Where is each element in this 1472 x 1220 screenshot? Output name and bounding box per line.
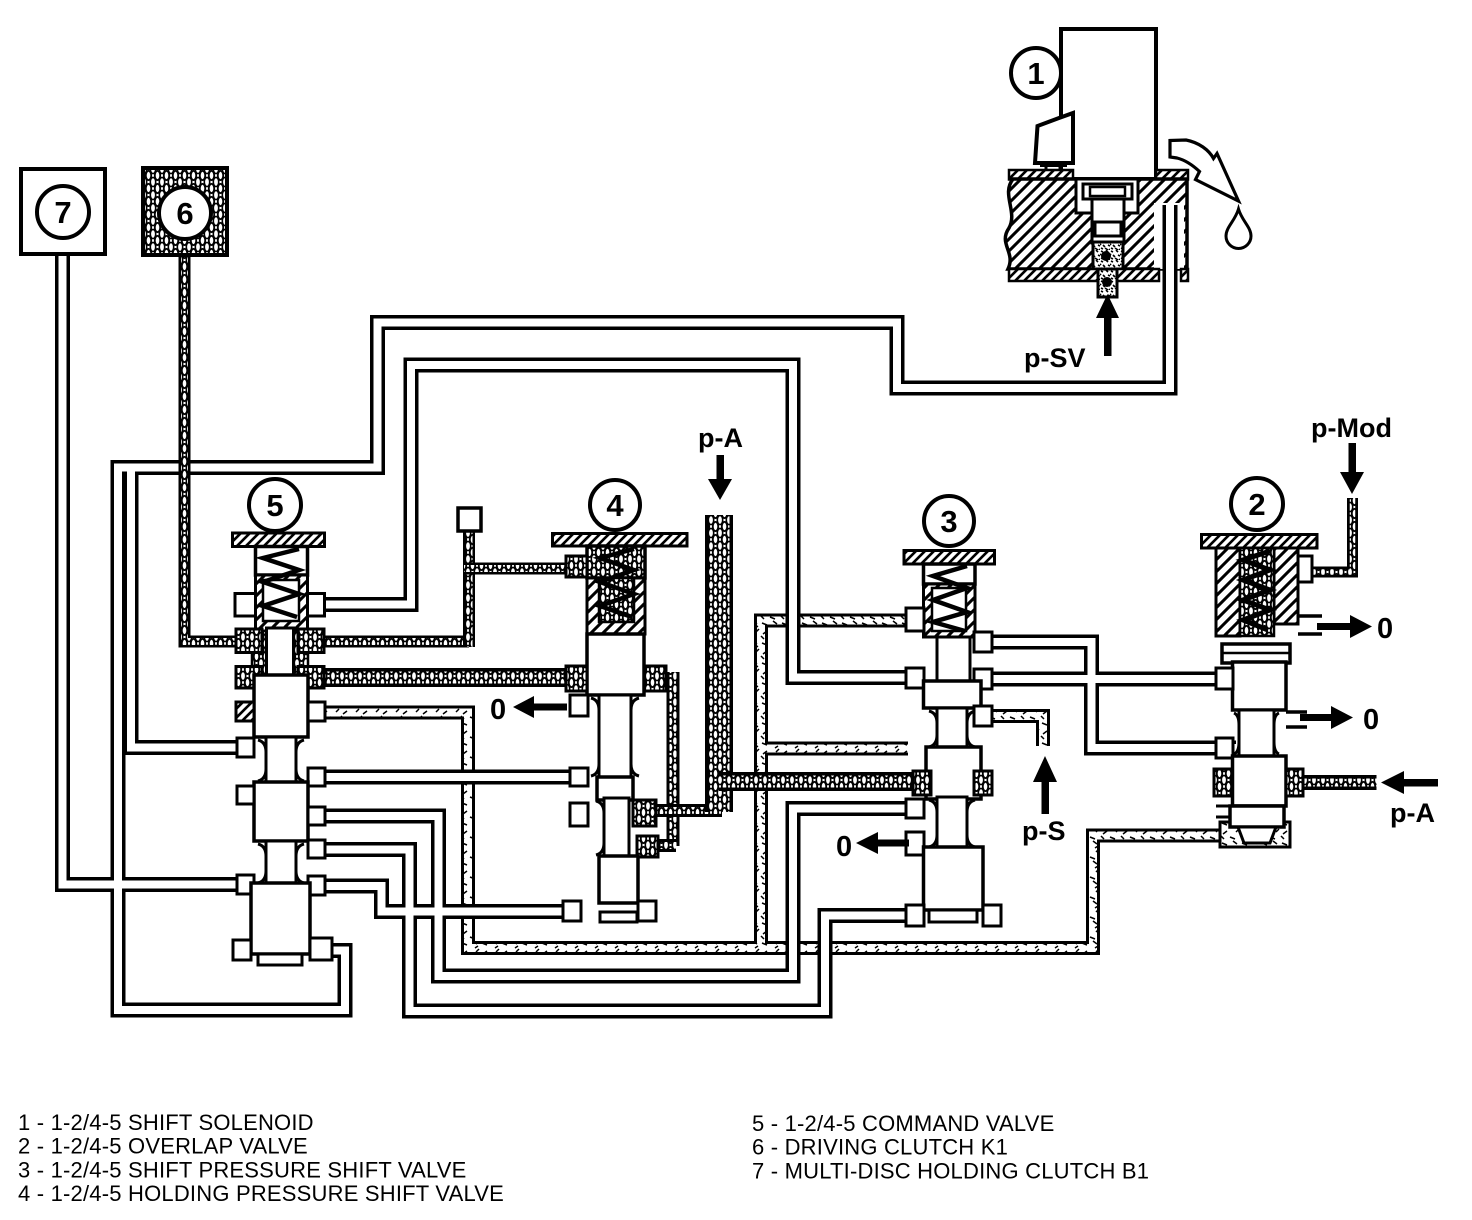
valve2 right vent lines row1: [1298, 616, 1322, 634]
wire valve5 bottom-right to valve4 bottom tab: [320, 886, 578, 912]
svg-text:p-SV: p-SV: [1024, 343, 1086, 373]
svg-text:4: 4: [606, 488, 624, 523]
chain stub lower: [640, 839, 676, 852]
valve2 spring: [1243, 551, 1270, 630]
valve4 left stub (pipe from valve5): [570, 768, 588, 786]
valve2 left stub (pipe A): [1216, 738, 1233, 758]
svg-text:4 - 1-2/4-5 HOLDING PRESSURE S: 4 - 1-2/4-5 HOLDING PRESSURE SHIFT VALVE: [18, 1181, 504, 1206]
valve2 neck flares: [1234, 713, 1279, 754]
valve5 right stub (to valve4 bottom): [308, 876, 325, 895]
valve5 neck2: [266, 841, 296, 886]
valve5 land3: [251, 883, 310, 954]
valve4 bottom cap: [600, 912, 637, 922]
valve5 bottom tabs: [233, 940, 251, 960]
arrow p-S up: [1042, 778, 1050, 814]
circle 5: [249, 479, 301, 531]
valve3 spring: [933, 566, 967, 631]
valve2 collar: [1222, 644, 1290, 663]
valve3 landB: [926, 747, 981, 799]
valve2 bottom speckled block: [1220, 822, 1290, 847]
valve3 left stub (P2 pipe): [906, 668, 924, 688]
svg-text:p-A: p-A: [1390, 798, 1435, 828]
plug stub square above valve4 feed: [458, 508, 481, 531]
housing top plate left: [1009, 170, 1073, 180]
box item 7 (multi-disc holding clutch B1): [21, 169, 105, 254]
valve5 left stub: [237, 786, 254, 804]
valve5 hatched block: [256, 575, 308, 631]
valve4 land1: [587, 634, 644, 695]
housing block: [1005, 179, 1187, 269]
valve2 chain stubs: [1214, 769, 1232, 796]
valve5 land1: [254, 675, 308, 737]
valve4 neck2: [604, 798, 629, 858]
svg-text:p-A: p-A: [698, 423, 743, 453]
valve4 left chain port (from plug stub): [566, 556, 587, 577]
valve3 hatched block: [924, 584, 976, 637]
valve2 p-Mod connector: [1298, 556, 1312, 582]
svg-text:2: 2: [1248, 487, 1265, 522]
p-A wide supply column: [705, 515, 733, 812]
valve2 spring housing: [1216, 548, 1240, 636]
valve3 right stub 2 (pipe to valve2): [974, 669, 992, 689]
valve4 cap bar: [553, 534, 688, 547]
valve4 chain stubs row: [566, 666, 587, 691]
wire valve5 right to valve4 left mid port: [320, 770, 573, 785]
svg-text:p-S: p-S: [1022, 816, 1066, 846]
wire P2: valve5 spring port up-over to valve 3 left port: [320, 365, 910, 678]
pipe from clutch box 6 down to valve 5 left port: [185, 253, 241, 642]
spool neck flares: [258, 698, 1279, 883]
valve5 chain port blocks row1: [236, 629, 262, 653]
vent speckled branch to valve 3 mid-left port: [761, 742, 908, 756]
valve4 hatched block: [587, 578, 645, 634]
X-chain pipe valve5 right row2 to valve4 left port: [305, 668, 573, 687]
housing right cavity: [1154, 203, 1184, 269]
valve5 body chain columns: [252, 631, 268, 681]
arrow p-A left: [1402, 779, 1438, 787]
valve3 right stub (p-S): [974, 706, 992, 726]
valve2 land1: [1233, 662, 1287, 710]
valve3 neck A-B: [937, 708, 967, 750]
valve5 land2: [254, 782, 308, 841]
valve4 spring: [600, 549, 634, 617]
valve2 left bottom stub lines: [1216, 806, 1230, 817]
plunger tail: [1098, 269, 1117, 297]
stub to valve 4 left top port: [464, 563, 573, 575]
valve5 neck1: [266, 737, 296, 784]
box item 6 (driving clutch K1): [143, 168, 227, 255]
valve5 right port stub (to valve4): [308, 768, 325, 786]
arrow p-SV up: [1104, 314, 1112, 356]
valve5 neck1 flares: [258, 740, 304, 781]
valve2 cap bar: [1202, 535, 1318, 549]
svg-text:0: 0: [490, 694, 506, 726]
valve5 neck2 flares: [258, 844, 304, 883]
svg-text:3 - 1-2/4-5 SHIFT PRESSURE SHI: 3 - 1-2/4-5 SHIFT PRESSURE SHIFT VALVE: [18, 1157, 467, 1182]
p-A chain pipe into valve 2 right: [1296, 775, 1378, 790]
valve3 chain stubs: [913, 771, 931, 795]
wire box7 to valve 5 lower-left port: [63, 252, 246, 885]
housing center cavity: [1076, 179, 1138, 213]
valve3 vent port: [906, 832, 924, 855]
valve3 right stub top (pipe to valve2): [974, 632, 992, 652]
vent 0 at valve2 row2: [1300, 714, 1332, 721]
valve stem channel: [1092, 199, 1124, 243]
valve5 spring: [263, 549, 299, 617]
svg-text:5 - 1-2/4-5 COMMAND VALVE: 5 - 1-2/4-5 COMMAND VALVE: [752, 1111, 1054, 1136]
housing top plate right: [1156, 170, 1188, 180]
valve3 spring chamber: [924, 564, 976, 584]
valve3 cap bar: [904, 551, 995, 565]
valve5 left port stub (p-SV branch): [237, 738, 254, 757]
valve4 bottom tabs: [563, 901, 581, 921]
svg-text:1 - 1-2/4-5 SHIFT SOLENOID: 1 - 1-2/4-5 SHIFT SOLENOID: [18, 1110, 314, 1135]
valve4 land3: [599, 856, 638, 903]
valve2 left stub: [1216, 668, 1233, 689]
valve3 left port at spring bottom (speckle): [906, 608, 924, 631]
valve3 bottom cap: [929, 910, 977, 922]
chain-textured pipes: [185, 253, 1379, 846]
svg-text:0: 0: [1377, 613, 1393, 645]
svg-text:6 - DRIVING CLUTCH K1: 6 - DRIVING CLUTCH K1: [752, 1135, 1008, 1160]
valve3 bottom tabs: [906, 905, 924, 926]
valve5 chain port blocks row2: [236, 667, 262, 689]
vent speckled branch riser to valve 3 upper ports: [761, 621, 922, 949]
valve4 left open stub: [570, 803, 588, 826]
connector terminal: [1040, 166, 1067, 173]
plug stub riser: [463, 525, 475, 647]
white double-line pipes (black pass): [63, 252, 1237, 1011]
plunger stippled: [1093, 242, 1123, 269]
wire valve3 right-top down-over to valve2 left mid: [988, 642, 1236, 748]
X-chain pipe p-A column to valve 3 left chain port: [719, 772, 916, 791]
wire p-SV main run: solenoid to valve 5 bottom: [118, 278, 1170, 1010]
svg-text:0: 0: [1363, 704, 1379, 736]
svg-text:7: 7: [54, 195, 71, 230]
stem ring: [1095, 222, 1121, 236]
circle 4: [590, 480, 640, 530]
svg-text:6: 6: [176, 196, 193, 231]
solenoid connector: [1035, 113, 1073, 163]
vent 0 at valve2 row1: [1317, 623, 1351, 630]
valve4 spring chamber chain-filled: [587, 546, 645, 578]
wire valve5 right (row6) via bottom run H2 to valve3 bottom tab: [320, 850, 910, 1012]
chain riser on valve4 right side: [667, 672, 680, 846]
svg-text:5: 5: [266, 488, 283, 523]
valve5 bottom cap: [258, 954, 302, 965]
valve2 bottom land: [1230, 806, 1284, 827]
valve5 right stub (row6): [308, 840, 325, 858]
housing bottom strip: [1009, 269, 1159, 281]
valve5 right stub (row5): [308, 807, 325, 825]
svg-text:3: 3: [940, 504, 957, 539]
valve5 vent port hatched: [236, 702, 254, 721]
valve5 cap bar: [233, 533, 325, 547]
wire valve5 right (row5) via bottom run H1 to valve3 left port: [320, 809, 910, 977]
valve5 left stub (box7 pipe): [237, 875, 254, 894]
valve2 neck: [1239, 710, 1274, 757]
valve4 land2: [597, 777, 633, 800]
p-Mod inlet pipe to valve 2: [1300, 498, 1353, 572]
vent droplet: [1226, 209, 1251, 248]
circle 1: [1011, 48, 1061, 98]
wavy pipe valve5 right row1 to plug stub riser: [305, 636, 469, 648]
vent gallery speckled pipe: valve5 vent to valve2 bottom: [318, 621, 1222, 949]
pipe from solenoid cavity down: [1163, 205, 1178, 278]
valve3 neck B-C: [937, 797, 967, 850]
valve4 neck: [599, 695, 631, 779]
valve5 spring chamber: [256, 547, 308, 576]
svg-text:1: 1: [1027, 56, 1044, 91]
valve3 neckBC flares: [929, 800, 975, 847]
valve3 landC: [924, 847, 984, 910]
arrow p-A down: [717, 455, 725, 483]
circle 2: [1231, 478, 1283, 530]
valve4 right chain stub2: [637, 836, 658, 857]
valve3 neck below spring: [937, 637, 970, 684]
valve5 vent port right (to gallery): [308, 702, 325, 721]
valve5 spring side tabs: [235, 594, 256, 617]
wire valve3 right to valve2 left upper: [988, 672, 1236, 687]
valve4 right chain stub: [633, 800, 656, 826]
chain link valve4 right to p-A column: [640, 804, 722, 817]
vent curved arrow: [1170, 140, 1239, 201]
valve3 landA: [924, 681, 982, 708]
circle 3: [924, 496, 974, 546]
wire p-SV branch to valve 5 left mid port: [131, 470, 245, 748]
valve2 right vent lines row2: [1286, 712, 1307, 727]
arrow p-Mod down: [1349, 443, 1357, 473]
solenoid body: [1061, 29, 1156, 179]
armature plate: [1083, 184, 1132, 199]
valve4 vent port: [570, 695, 588, 716]
svg-text:2 - 1-2/4-5 OVERLAP VALVE: 2 - 1-2/4-5 OVERLAP VALVE: [18, 1134, 308, 1159]
valve3 neckAB flares: [929, 711, 975, 747]
p-S speckled pipe from valve 3 right port: [978, 716, 1043, 746]
valve4 neck2 flares: [596, 801, 604, 855]
svg-text:0: 0: [836, 831, 852, 863]
valve3 left stub (H1 pipe): [906, 799, 924, 818]
valve2 land2: [1233, 756, 1287, 806]
svg-text:7 - MULTI-DISC HOLDING CLUTCH: 7 - MULTI-DISC HOLDING CLUTCH B1: [752, 1158, 1149, 1183]
svg-text:p-Mod: p-Mod: [1311, 413, 1392, 443]
valve4 neck flares: [591, 698, 639, 776]
white double-line pipes (white pass): [63, 250, 1239, 1011]
